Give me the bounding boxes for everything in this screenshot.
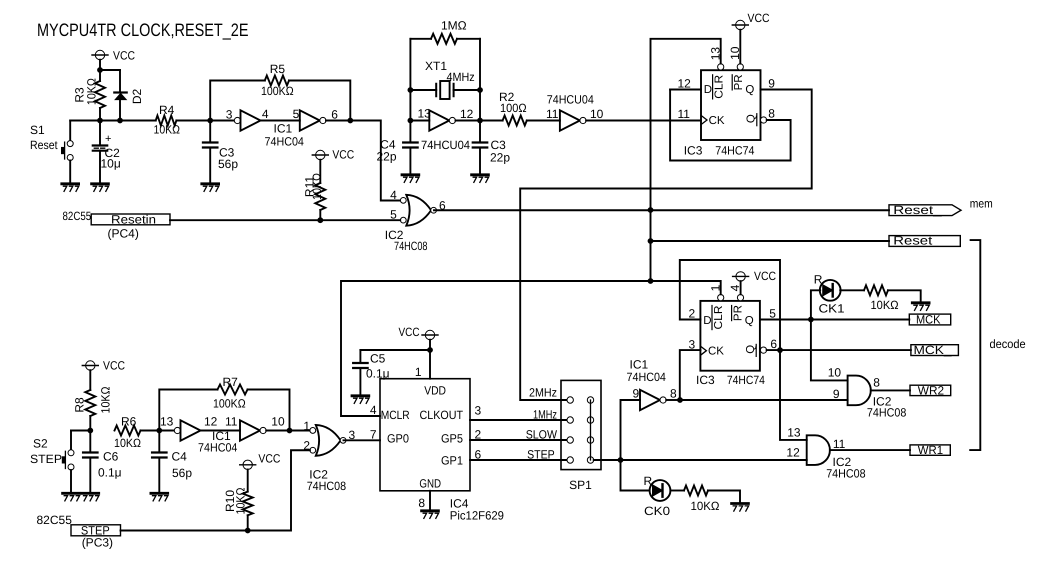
svg-text:Reset_: Reset_ [893,203,942,217]
svg-text:R6: R6 [121,415,137,429]
svg-text:100KΩ: 100KΩ [261,84,294,98]
svg-text:10: 10 [828,366,842,380]
svg-text:IC3: IC3 [684,144,703,158]
svg-text:SLOW: SLOW [526,428,558,442]
svg-text:MCK_: MCK_ [914,343,952,357]
svg-text:4: 4 [390,188,397,202]
svg-text:D: D [703,315,711,327]
svg-text:Resetin: Resetin [111,212,156,226]
svg-text:decode: decode [990,337,1026,351]
svg-text:9: 9 [768,77,775,91]
svg-text:VDD: VDD [424,384,446,398]
svg-text:C4: C4 [172,450,188,464]
svg-text:mem: mem [970,197,993,211]
svg-text:CK1: CK1 [819,301,845,315]
svg-text:+: + [105,133,111,145]
svg-text:10KΩ: 10KΩ [85,78,99,105]
svg-text:D2: D2 [130,89,144,105]
svg-text:82C55: 82C55 [37,513,73,527]
svg-text:1MHz: 1MHz [533,408,557,422]
svg-text:CK: CK [709,115,725,127]
svg-text:VCC: VCC [399,325,420,339]
svg-text:Q: Q [745,84,754,96]
svg-text:22p: 22p [376,150,396,164]
svg-text:CLKOUT: CLKOUT [420,408,464,422]
svg-text:11: 11 [546,107,559,121]
svg-text:8: 8 [670,387,677,401]
svg-text:8: 8 [418,496,425,510]
svg-text:GP5: GP5 [441,432,463,446]
svg-text:PR: PR [733,305,745,321]
svg-text:CK0: CK0 [644,504,670,518]
svg-text:7: 7 [370,428,377,442]
svg-text:CLR: CLR [714,75,726,99]
svg-text:2MHz: 2MHz [529,386,557,400]
svg-text:2: 2 [689,307,696,321]
svg-text:GP0: GP0 [387,432,409,446]
svg-text:Q: Q [746,114,758,123]
svg-text:8: 8 [873,376,880,390]
svg-text:4MHz: 4MHz [447,70,475,84]
svg-text:CK: CK [708,346,724,358]
svg-text:13: 13 [708,47,722,61]
svg-text:5: 5 [293,107,300,121]
svg-text:1: 1 [415,365,422,379]
svg-text:D: D [704,84,712,96]
svg-text:VCC: VCC [748,11,770,25]
svg-text:VCC: VCC [258,451,280,465]
svg-text:PR: PR [733,74,745,90]
svg-text:(PC3): (PC3) [82,536,113,550]
svg-text:WR1: WR1 [918,443,944,457]
svg-text:10KΩ: 10KΩ [691,499,720,513]
svg-text:74HCU04: 74HCU04 [421,138,470,152]
svg-text:S1: S1 [30,123,45,137]
svg-text:Pic12F629: Pic12F629 [450,509,505,523]
svg-text:4: 4 [728,284,742,291]
svg-text:74HCU04: 74HCU04 [547,93,594,107]
svg-text:3: 3 [475,404,482,418]
svg-text:VCC: VCC [332,148,354,162]
svg-text:10μ: 10μ [101,157,121,171]
svg-text:MCLR: MCLR [381,408,410,422]
svg-text:XT1: XT1 [425,59,447,73]
svg-text:WR2: WR2 [918,383,945,397]
svg-text:11: 11 [678,107,691,121]
svg-text:56p: 56p [218,157,238,171]
svg-text:10KΩ: 10KΩ [871,298,899,312]
svg-text:12: 12 [460,107,474,121]
svg-text:IC1: IC1 [274,122,293,136]
svg-text:SP1: SP1 [569,478,592,492]
svg-text:MCK: MCK [916,313,941,327]
svg-text:12: 12 [786,446,800,460]
svg-text:13: 13 [787,426,801,440]
svg-text:R8: R8 [72,397,86,413]
svg-text:R5: R5 [270,62,286,76]
svg-text:22p: 22p [490,151,510,165]
svg-text:0.1μ: 0.1μ [366,367,390,381]
svg-text:10KΩ: 10KΩ [234,487,248,514]
svg-text:13: 13 [418,107,432,121]
svg-text:1MΩ: 1MΩ [441,19,467,33]
svg-text:4: 4 [370,403,377,417]
svg-text:3: 3 [226,108,233,122]
svg-text:R7: R7 [223,375,239,389]
svg-text:C5: C5 [370,352,386,366]
svg-text:IC3: IC3 [696,373,715,387]
svg-text:C6: C6 [103,450,119,464]
svg-text:Q: Q [745,315,754,327]
svg-text:VCC: VCC [103,359,125,373]
svg-text:74HC08: 74HC08 [826,466,866,480]
svg-text:10KΩ: 10KΩ [99,386,113,413]
svg-text:Reset_: Reset_ [893,234,941,248]
svg-text:6: 6 [331,108,338,122]
svg-text:5: 5 [769,307,776,321]
svg-text:0.1μ: 0.1μ [98,466,122,480]
svg-text:11: 11 [833,437,846,451]
svg-text:VCC: VCC [754,269,776,283]
svg-text:11: 11 [225,415,238,429]
svg-text:R: R [814,273,823,287]
svg-text:STEP: STEP [527,448,555,462]
svg-text:74HC08: 74HC08 [867,406,907,420]
svg-text:74HC08: 74HC08 [307,479,347,493]
svg-text:9: 9 [633,387,640,401]
svg-text:100Ω: 100Ω [500,101,527,115]
svg-text:74HC74: 74HC74 [715,144,754,158]
svg-text:1: 1 [708,284,722,291]
svg-text:74HC74: 74HC74 [727,373,765,387]
svg-text:82C55: 82C55 [63,209,92,223]
svg-text:R: R [644,474,653,488]
svg-text:VCC: VCC [113,49,135,63]
svg-text:10KΩ: 10KΩ [114,436,141,450]
svg-text:74HC04: 74HC04 [265,135,305,149]
svg-text:12: 12 [678,77,692,91]
svg-text:4: 4 [262,107,269,121]
svg-text:Reset: Reset [30,138,58,152]
svg-text:74HC04: 74HC04 [627,370,667,384]
svg-text:CLR: CLR [713,306,725,330]
svg-text:9: 9 [833,387,840,401]
svg-text:Q: Q [745,345,757,354]
svg-text:GND: GND [419,477,441,491]
svg-text:R4: R4 [159,103,175,117]
svg-text:74HC04: 74HC04 [198,441,238,455]
svg-text:13: 13 [160,415,174,429]
svg-text:STEP: STEP [30,452,62,466]
svg-text:56p: 56p [172,466,192,480]
svg-text:1: 1 [303,419,310,433]
svg-text:12: 12 [204,415,218,429]
svg-text:3: 3 [689,338,696,352]
svg-text:10: 10 [728,46,742,60]
svg-text:100KΩ: 100KΩ [213,397,246,411]
svg-text:S2: S2 [33,437,48,451]
svg-text:6: 6 [770,337,777,351]
svg-text:MYCPU4TR CLOCK,RESET_2E: MYCPU4TR CLOCK,RESET_2E [37,20,249,40]
svg-text:GP1: GP1 [441,454,463,468]
svg-text:10: 10 [590,107,604,121]
svg-text:10KΩ: 10KΩ [310,173,324,200]
svg-text:(PC4): (PC4) [108,227,139,241]
svg-text:10: 10 [271,415,285,429]
svg-text:10KΩ: 10KΩ [154,123,181,137]
svg-text:74HC08: 74HC08 [394,239,428,253]
svg-text:8: 8 [768,107,775,121]
